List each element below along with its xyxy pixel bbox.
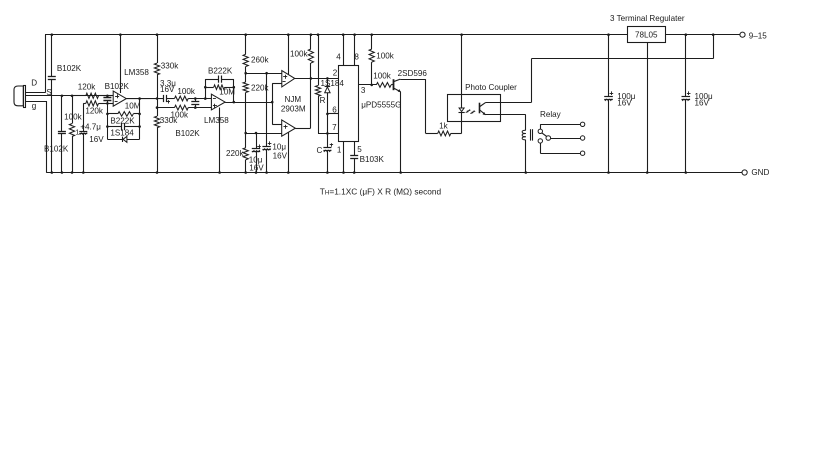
svg-text:2903M: 2903M: [281, 104, 306, 113]
svg-text:B102K: B102K: [44, 144, 69, 153]
svg-text:B103K: B103K: [360, 155, 385, 164]
svg-text:100k: 100k: [177, 87, 196, 96]
svg-text:1S184: 1S184: [321, 79, 345, 88]
svg-text:8: 8: [354, 52, 359, 61]
svg-text:16V: 16V: [695, 99, 710, 108]
svg-text:3 Terminal Regulater: 3 Terminal Regulater: [610, 14, 685, 23]
svg-text:C: C: [317, 146, 323, 155]
svg-text:1: 1: [75, 128, 79, 137]
svg-text:LM358: LM358: [204, 116, 229, 125]
svg-text:120k: 120k: [78, 83, 97, 92]
svg-text:16V: 16V: [160, 85, 175, 94]
svg-text:Relay: Relay: [540, 110, 562, 119]
svg-text:10M: 10M: [125, 102, 141, 111]
svg-text:TH=1.1XC (μF) X R (MΩ) second: TH=1.1XC (μF) X R (MΩ) second: [320, 187, 442, 197]
svg-text:16V: 16V: [89, 135, 104, 144]
svg-text:9–15: 9–15: [749, 31, 768, 40]
svg-text:B102K: B102K: [57, 64, 82, 73]
svg-text:1S184: 1S184: [110, 128, 134, 137]
svg-text:2SD596: 2SD596: [398, 69, 428, 78]
svg-text:1: 1: [337, 145, 342, 154]
svg-text:16V: 16V: [617, 99, 632, 108]
svg-text:2: 2: [333, 69, 338, 78]
svg-text:16V: 16V: [249, 164, 264, 173]
svg-text:120k: 120k: [85, 107, 104, 116]
svg-text:100k: 100k: [171, 110, 190, 119]
svg-text:3: 3: [361, 86, 366, 95]
svg-text:7: 7: [332, 123, 337, 132]
svg-text:R: R: [320, 96, 326, 105]
svg-text:16V: 16V: [273, 151, 288, 160]
svg-text:6: 6: [332, 105, 337, 114]
svg-text:100k: 100k: [64, 113, 83, 122]
svg-text:100k: 100k: [373, 72, 392, 81]
svg-text:D: D: [31, 79, 37, 88]
svg-text:10μ: 10μ: [272, 143, 286, 152]
svg-text:Photo Coupler: Photo Coupler: [465, 83, 517, 92]
svg-text:g: g: [32, 102, 37, 111]
svg-text:4: 4: [336, 52, 341, 61]
svg-text:+4.7μ: +4.7μ: [80, 123, 101, 132]
svg-text:5: 5: [357, 145, 362, 154]
svg-text:μPD5555G: μPD5555G: [361, 101, 401, 110]
svg-text:260k: 260k: [251, 56, 270, 65]
svg-text:330k: 330k: [161, 61, 180, 70]
svg-text:B102K: B102K: [175, 129, 200, 138]
svg-text:GND: GND: [751, 168, 769, 177]
svg-text:220k: 220k: [226, 149, 245, 158]
svg-text:NJM: NJM: [285, 95, 302, 104]
svg-text:100k: 100k: [376, 51, 395, 60]
svg-text:10M: 10M: [219, 88, 235, 97]
svg-text:100k: 100k: [290, 50, 309, 59]
svg-text:1k: 1k: [439, 122, 449, 131]
svg-text:B222K: B222K: [110, 116, 135, 125]
svg-text:B222K: B222K: [208, 67, 233, 76]
svg-text:LM358: LM358: [124, 68, 149, 77]
svg-text:B102K: B102K: [105, 82, 130, 91]
svg-text:78L05: 78L05: [635, 30, 658, 39]
